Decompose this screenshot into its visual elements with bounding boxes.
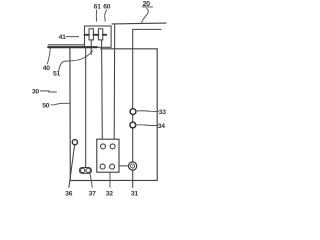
svg-text:37: 37 — [89, 190, 96, 197]
pipe stub 51 from valve 61 — [90, 40, 92, 54]
pump module hole (bottom-left) — [100, 164, 105, 169]
svg-text:41: 41 — [59, 34, 66, 41]
pump module hole (top-right) — [110, 144, 115, 149]
pipe from valve 60 down to pump module — [101, 40, 104, 139]
ring terminal 37 left eye — [81, 168, 85, 172]
fuel tank 20 top wall — [112, 22, 166, 25]
pump inlet 31 inner — [131, 164, 135, 168]
svg-text:61: 61 — [94, 4, 101, 11]
label 50 leader — [51, 103, 70, 105]
label 37 leader — [90, 173, 92, 187]
svg-text:60: 60 — [103, 4, 110, 11]
valve 60 side bars — [97, 34, 106, 36]
svg-text:50: 50 — [42, 102, 49, 109]
float pivot 36 — [72, 140, 77, 145]
label 60 leader — [105, 10, 107, 21]
valve 60 body — [98, 29, 102, 40]
pipe down to ring terminal 37 — [85, 48, 87, 168]
svg-text:40: 40 — [43, 65, 50, 72]
label 51 leader — [59, 51, 93, 72]
pump inlet 31 outer — [129, 162, 137, 170]
valve 61 body — [89, 29, 93, 40]
pump module hole (top-left) — [101, 144, 106, 149]
ring terminal 37 right eye — [86, 168, 90, 172]
terminal 33 — [130, 109, 136, 115]
sub-tank 50 body — [70, 48, 157, 181]
svg-text:30: 30 — [32, 89, 39, 96]
svg-text:36: 36 — [65, 190, 72, 197]
pump inlet 31 center dot — [132, 165, 133, 166]
svg-text:51: 51 — [53, 71, 60, 78]
flange plate 40 top line — [48, 44, 84, 46]
label 34 leader — [136, 124, 158, 127]
lead wire to connector — [133, 29, 161, 187]
svg-text:31: 31 — [131, 190, 138, 197]
label 20 leader — [142, 8, 149, 22]
label 30 leader — [40, 91, 56, 92]
label 40 leader — [47, 48, 50, 64]
label 41 leader — [66, 36, 78, 38]
label 33 leader — [136, 110, 159, 113]
valve 61 side bars — [85, 34, 97, 36]
pump module 32 body — [97, 139, 119, 172]
ring terminal 37 outer — [79, 168, 91, 174]
label 32 leader — [109, 172, 111, 187]
float arm / 36 leader — [69, 145, 75, 188]
component box 60 — [85, 26, 112, 47]
terminal 34 — [130, 122, 136, 128]
flange plate 40 bottom line — [48, 46, 97, 48]
svg-text:32: 32 — [106, 190, 113, 197]
label 61 leader — [95, 10, 97, 21]
pump module hole (bottom-right) — [110, 164, 115, 169]
svg-text:33: 33 — [159, 109, 166, 116]
label 20 — [142, 1, 152, 8]
wire from pump module to inlet 31 — [119, 165, 129, 167]
svg-text:34: 34 — [158, 123, 165, 130]
pipe from tank top into pump module — [113, 24, 116, 139]
